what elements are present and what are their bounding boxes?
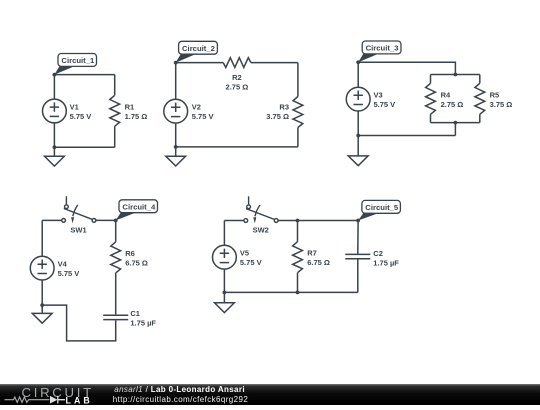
node dot c5 C2 top <box>356 219 360 223</box>
ground c1 <box>45 147 65 166</box>
wire V4 to switch c4 <box>42 219 62 221</box>
wire left rail c4 <box>41 220 43 305</box>
wire junction to C2 node c5 <box>298 220 359 222</box>
resistor R2 <box>223 58 251 68</box>
svg-text:V2: V2 <box>192 102 201 111</box>
wire bottom c1 <box>54 146 114 148</box>
svg-text:2.75 Ω: 2.75 Ω <box>226 83 249 92</box>
svg-text:Circuit_2: Circuit_2 <box>182 44 215 53</box>
svg-text:6.75 Ω: 6.75 Ω <box>125 258 148 267</box>
logo wire squiggle <box>5 397 50 402</box>
svg-text:V3: V3 <box>374 90 383 99</box>
wire bottom c3 <box>358 135 455 137</box>
wire R5 stubs <box>479 75 481 123</box>
node dot c4 ground <box>40 303 44 307</box>
voltage source V1 <box>43 99 67 123</box>
svg-text:Circuit_3: Circuit_3 <box>366 44 399 53</box>
svg-text:C1: C1 <box>130 309 140 318</box>
svg-text:C2: C2 <box>373 249 383 258</box>
wire C2 branch c5 <box>357 221 359 293</box>
ground c5 <box>215 292 235 312</box>
svg-text:Circuit_1: Circuit_1 <box>61 56 95 65</box>
svg-text:R4: R4 <box>441 90 451 99</box>
resistor R3 <box>293 97 303 128</box>
svg-text:SW1: SW1 <box>70 225 86 234</box>
voltage source V2 <box>164 99 188 123</box>
resistor R5 <box>475 83 485 114</box>
wire R4 stubs <box>430 75 432 123</box>
wire bottom c5 <box>224 291 357 293</box>
svg-text:Circuit_4: Circuit_4 <box>122 202 156 211</box>
svg-text:6.75 Ω: 6.75 Ω <box>307 258 330 267</box>
svg-text:LAB: LAB <box>66 396 93 405</box>
logo diode <box>50 396 58 404</box>
label Circuit_4 callout <box>116 200 158 221</box>
voltage source V3 <box>346 87 370 111</box>
wire left rail c3 <box>357 62 359 135</box>
wire bottom c2 <box>176 146 298 148</box>
node dot c2 bottom <box>174 145 178 149</box>
svg-text:V1: V1 <box>70 102 79 111</box>
wire C1 bottom loop c4 <box>42 305 116 341</box>
resistor R7 <box>293 242 303 273</box>
svg-text:R6: R6 <box>125 249 135 258</box>
label Circuit_5 callout <box>358 200 400 220</box>
resistor R4 <box>426 83 436 114</box>
capacitor C1 <box>103 315 128 319</box>
switch SW1 <box>62 196 96 223</box>
label Circuit_3 callout <box>358 41 401 62</box>
node dot c5 switch junction <box>296 219 300 223</box>
wire branch top c3 <box>431 74 480 76</box>
wire R6 branch c4 <box>115 220 117 314</box>
svg-text:5.75 V: 5.75 V <box>70 112 92 121</box>
wire R7 branch c5 <box>297 221 299 293</box>
resistor R1 <box>110 95 120 126</box>
svg-text:R5: R5 <box>490 90 500 99</box>
logo diode bar <box>58 396 65 404</box>
wire left rail c2 <box>175 63 177 147</box>
svg-text:R1: R1 <box>125 102 135 111</box>
node dot c3 branch bottom <box>454 121 458 125</box>
svg-text:V4: V4 <box>58 260 68 269</box>
svg-text:ansarl1 / Lab 0-Leonardo Ansar: ansarl1 / Lab 0-Leonardo Ansari <box>114 385 245 394</box>
svg-text:5.75 V: 5.75 V <box>240 258 262 267</box>
svg-text:3.75 Ω: 3.75 Ω <box>266 112 289 121</box>
wire right rail c2 <box>297 63 299 147</box>
svg-text:3.75 Ω: 3.75 Ω <box>490 100 513 109</box>
wire V5 to switch c5 <box>224 220 244 222</box>
wire left rail c1 <box>53 75 55 148</box>
wire left rail c5 <box>223 221 225 293</box>
svg-text:5.75 V: 5.75 V <box>374 100 396 109</box>
node dot c3 branch top <box>454 73 458 77</box>
svg-text:1.75 Ω: 1.75 Ω <box>125 112 148 121</box>
svg-text:R2: R2 <box>232 73 242 82</box>
node dot c1 top <box>53 73 57 77</box>
svg-text:2.75 Ω: 2.75 Ω <box>441 100 464 109</box>
wire branch bottom c3 <box>431 122 480 124</box>
wire top c2 <box>176 62 298 64</box>
label Circuit_1 callout <box>54 54 96 75</box>
resistor R6 <box>111 242 121 273</box>
svg-text:5.75 V: 5.75 V <box>192 112 214 121</box>
svg-text:V5: V5 <box>240 249 249 258</box>
svg-text:1.75 µF: 1.75 µF <box>130 319 156 328</box>
wire junction to bottom c3 <box>454 123 456 136</box>
wire switch to node c4 <box>96 219 116 221</box>
node dot c5 ground <box>223 291 227 295</box>
svg-text:1.75 µF: 1.75 µF <box>373 258 399 267</box>
footer bar <box>0 384 540 405</box>
wire top c3 <box>358 62 455 74</box>
wire top c1 <box>54 74 114 76</box>
ground c3 <box>348 136 368 166</box>
node dot c5 bottom junction <box>296 291 300 295</box>
svg-text:R3: R3 <box>279 102 289 111</box>
svg-text:Circuit_5: Circuit_5 <box>365 203 399 212</box>
svg-text:SW2: SW2 <box>253 225 269 234</box>
capacitor C2 <box>345 254 370 258</box>
node dot c1 bottom <box>53 145 57 149</box>
node dot c4 switch-R6 <box>114 219 118 223</box>
svg-text:R7: R7 <box>307 249 317 258</box>
node dot c2 top <box>174 61 178 65</box>
node dot c3 bottom <box>356 134 360 138</box>
node dot c3 top <box>356 60 360 64</box>
svg-text:5.75 V: 5.75 V <box>58 269 80 278</box>
ground c4 <box>32 305 52 323</box>
voltage source V5 <box>213 245 237 269</box>
ground c2 <box>166 147 186 166</box>
switch SW2 <box>244 196 278 223</box>
wire right rail c1 <box>114 75 116 148</box>
wire switch to junction c5 <box>278 220 297 222</box>
label Circuit_2 callout <box>176 41 218 62</box>
svg-text:http://circuitlab.com/cfefck6q: http://circuitlab.com/cfefck6qrg292 <box>113 395 249 404</box>
voltage source V4 <box>30 256 54 280</box>
